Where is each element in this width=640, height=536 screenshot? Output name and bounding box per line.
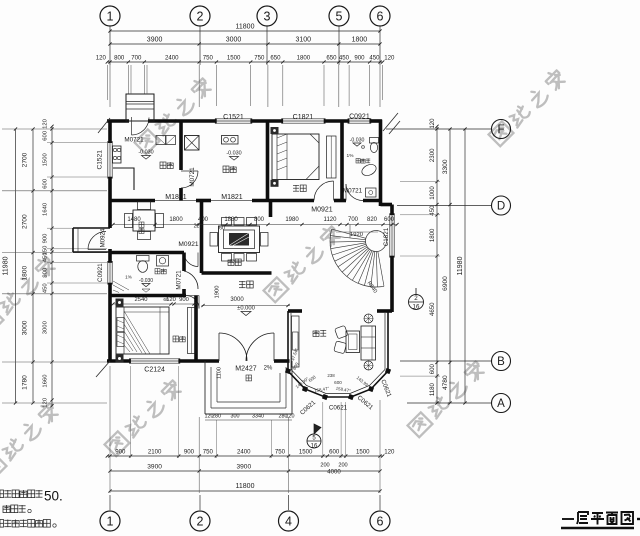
side porch (73, 227, 110, 229)
interior wall dining south (202, 271, 272, 275)
svg-text:F: F (497, 124, 504, 136)
dim row top small (107, 61, 382, 63)
svg-text:-0.030: -0.030 (139, 278, 153, 284)
kitchen1 stove (113, 146, 122, 163)
svg-text:C1521: C1521 (223, 114, 244, 121)
svg-text:C1521: C1521 (97, 150, 104, 170)
svg-text:M2427: M2427 (235, 366, 257, 373)
corner diagonal top-left (98, 118, 110, 133)
svg-text:M0721: M0721 (343, 188, 363, 195)
svg-text:6: 6 (377, 9, 384, 23)
svg-text:1100: 1100 (217, 367, 223, 379)
svg-text:650: 650 (326, 55, 337, 62)
section marker 5/16 (307, 434, 321, 448)
svg-text:1500: 1500 (356, 449, 370, 456)
svg-text:750: 750 (203, 55, 214, 62)
text 下 (246, 375, 252, 381)
interior wall bath2 east (182, 253, 186, 272)
svg-text:M0721: M0721 (124, 137, 144, 144)
svg-text:A: A (497, 398, 505, 410)
svg-text:800: 800 (114, 55, 125, 62)
svg-text:2400: 2400 (237, 449, 251, 456)
window C2124 bottom (131, 358, 179, 360)
interior wall bath2 north (110, 251, 184, 255)
axis bubbles right F D B A (386, 128, 491, 130)
back door M0721 (131, 117, 133, 135)
title underline (561, 527, 634, 529)
grid bubbles top (100, 6, 120, 26)
svg-text:120: 120 (384, 55, 395, 62)
svg-text:C1821: C1821 (293, 114, 314, 121)
svg-text:120: 120 (286, 414, 295, 420)
grid bubbles bottom (109, 495, 111, 510)
svg-text:M1821: M1821 (165, 194, 187, 201)
svg-text:220: 220 (194, 224, 203, 230)
svg-text:2: 2 (197, 514, 204, 528)
svg-text:1660: 1660 (43, 374, 49, 388)
svg-text:4780: 4780 (442, 375, 449, 390)
note line 2 (3, 505, 10, 513)
svg-text:M0921: M0921 (311, 207, 333, 214)
svg-text:400: 400 (198, 217, 209, 223)
svg-text:C0621: C0621 (329, 405, 348, 412)
svg-text:3000: 3000 (230, 297, 244, 303)
bay posts (285, 368, 291, 374)
window C1821 top (283, 118, 324, 120)
entry porch steps (204, 361, 206, 414)
svg-text:900: 900 (354, 55, 365, 62)
kitchen2 stove (222, 136, 239, 145)
svg-text:11980: 11980 (3, 256, 10, 275)
svg-text:900: 900 (43, 233, 49, 244)
outer wall bottom (107, 359, 131, 363)
svg-text:1780: 1780 (22, 375, 29, 390)
living top wall stub (288, 309, 302, 313)
svg-text:600: 600 (43, 130, 49, 141)
svg-text:M1821: M1821 (221, 194, 243, 201)
bedroom wardrobe (327, 136, 337, 178)
svg-text:600: 600 (334, 380, 342, 385)
svg-text:1800: 1800 (429, 228, 436, 242)
svg-text:1800: 1800 (352, 37, 368, 44)
section marker 2/16 (409, 295, 424, 310)
svg-text:3000: 3000 (43, 320, 49, 334)
door M0921 small (184, 253, 198, 267)
bath2 shower (113, 281, 129, 293)
watermark 图纸之家 (0, 401, 60, 480)
svg-text:2%: 2% (264, 366, 273, 372)
text 客厅 (313, 330, 319, 337)
kitchen1 cabinets (156, 136, 166, 145)
svg-text:3100: 3100 (296, 37, 312, 44)
corner diagonal top-right (383, 113, 398, 131)
svg-text:820: 820 (367, 217, 378, 223)
svg-text:3900: 3900 (236, 464, 251, 471)
svg-text:650: 650 (270, 55, 281, 62)
svg-text:2700: 2700 (22, 214, 29, 229)
interior wall hall west (200, 201, 204, 274)
watermark 图纸之家 (134, 76, 213, 155)
outer wall right (379, 120, 383, 206)
svg-text:2540: 2540 (135, 297, 148, 303)
svg-text:700: 700 (131, 55, 142, 62)
svg-text:2: 2 (197, 9, 204, 23)
kitchen1 counter (113, 168, 134, 190)
svg-text:3000: 3000 (22, 320, 29, 335)
master wardrobe (188, 308, 197, 354)
text 卧室 (293, 185, 299, 192)
svg-text:750: 750 (275, 449, 286, 456)
window C0921 left (107, 263, 109, 284)
svg-text:1500: 1500 (227, 55, 241, 62)
window C1521 top (216, 118, 250, 120)
watermark 图纸之家 (104, 378, 183, 457)
svg-text:3900: 3900 (147, 464, 162, 471)
svg-text:120: 120 (96, 55, 107, 62)
svg-text:1920: 1920 (350, 232, 363, 238)
svg-text:1%: 1% (125, 275, 132, 280)
text 厨房 (223, 166, 229, 173)
interior wall kitchen1|kitchen2 (179, 123, 183, 171)
svg-text:1980: 1980 (285, 217, 299, 223)
interior wall kitchen2|bedroom (266, 123, 270, 201)
svg-text:3: 3 (264, 9, 271, 23)
title 一层平面图 (562, 512, 633, 525)
svg-text:16: 16 (413, 304, 420, 311)
master bedroom dim (113, 303, 196, 305)
svg-text:11980: 11980 (457, 256, 464, 275)
stair bay wall (381, 203, 393, 207)
svg-text:450: 450 (369, 55, 380, 62)
svg-text:4650: 4650 (429, 302, 436, 316)
svg-text:C0921: C0921 (349, 114, 370, 121)
svg-text:M0721: M0721 (189, 167, 196, 187)
svg-text:-0.030: -0.030 (226, 151, 241, 157)
svg-text:2100: 2100 (148, 449, 162, 456)
svg-text:3340: 3340 (252, 414, 264, 420)
outer wall top (107, 119, 129, 123)
svg-text:2: 2 (414, 295, 418, 302)
hall dim 3000 (202, 305, 291, 307)
svg-text:900: 900 (179, 297, 189, 303)
svg-text:600: 600 (43, 178, 49, 189)
door M0721 bath2 (184, 271, 198, 289)
svg-text:600: 600 (429, 364, 436, 375)
canopy above back door (126, 94, 154, 121)
window C1521 left (107, 143, 109, 177)
svg-text:M0721: M0721 (176, 270, 183, 290)
svg-text:600: 600 (329, 449, 340, 456)
spiral stair (332, 229, 366, 238)
svg-text:300: 300 (231, 414, 240, 420)
svg-text:1000: 1000 (429, 186, 436, 200)
svg-text:900: 900 (115, 449, 126, 456)
door M0924 (88, 249, 106, 251)
svg-text:450: 450 (43, 283, 49, 294)
living sofa (361, 326, 376, 360)
svg-text:M0921: M0921 (178, 241, 198, 248)
svg-text:120: 120 (43, 118, 49, 129)
svg-text:11800: 11800 (236, 24, 255, 31)
corner diagonal bottom-left (96, 361, 110, 377)
svg-text:1800: 1800 (22, 266, 29, 281)
svg-text:238: 238 (327, 373, 335, 378)
svg-text:±0.000: ±0.000 (237, 306, 255, 312)
text 卫生间 (356, 159, 360, 164)
bedroom bed (272, 134, 319, 180)
svg-text:60: 60 (163, 297, 169, 303)
svg-text:2300: 2300 (429, 148, 436, 162)
svg-text:-0.030: -0.030 (350, 138, 365, 144)
text 餐厅 (228, 259, 234, 266)
text 主卫 (155, 269, 160, 274)
watermark 图纸之家 (263, 224, 342, 303)
flue shaft (185, 136, 200, 151)
plants (364, 314, 373, 323)
svg-text:D: D (497, 201, 505, 213)
window C1821 right bay (389, 215, 391, 256)
svg-text:120: 120 (43, 397, 49, 408)
svg-text:1120: 1120 (324, 217, 338, 223)
svg-text:4000: 4000 (327, 469, 341, 476)
interior wall bedroom|bath (340, 123, 344, 201)
svg-text:900: 900 (43, 267, 49, 278)
door M0721 bath (346, 184, 363, 201)
dim 11800 top (110, 30, 380, 32)
svg-text:16: 16 (311, 444, 318, 450)
window C0921 top (349, 118, 370, 120)
svg-text:C0921: C0921 (97, 263, 104, 282)
text 主卧 (173, 336, 179, 342)
interior wall master north (110, 294, 186, 298)
interior wall master east (194, 296, 198, 362)
svg-text:450: 450 (429, 205, 436, 216)
svg-text:1180: 1180 (429, 382, 436, 396)
svg-text:1%: 1% (347, 153, 355, 159)
interior wall below dining (269, 201, 273, 218)
master bed (116, 307, 169, 354)
porch dims (205, 419, 292, 421)
svg-text:3900: 3900 (147, 37, 163, 44)
watermark 图纸之家 (407, 359, 486, 438)
right dim chains (436, 126, 438, 403)
svg-text:6900: 6900 (442, 276, 449, 291)
svg-text:4: 4 (285, 514, 292, 528)
svg-text:1800: 1800 (169, 217, 183, 223)
svg-text:1900: 1900 (215, 286, 221, 299)
svg-text:-0.030: -0.030 (138, 150, 153, 156)
svg-text:120: 120 (384, 449, 395, 456)
watermark 图纸之家 (0, 255, 57, 334)
svg-text:5: 5 (336, 9, 343, 23)
large dining table (219, 226, 260, 253)
living room bay outer (288, 311, 388, 397)
bath fixtures (360, 162, 378, 177)
interior dim string (113, 224, 397, 226)
living TV cabinet (292, 316, 300, 367)
text 餐厅 small (139, 222, 144, 227)
svg-text:280: 280 (212, 414, 221, 420)
svg-text:6: 6 (377, 514, 384, 528)
door M0721 arc (181, 171, 198, 188)
svg-text:M0924: M0924 (100, 228, 107, 247)
bath2 toilet (137, 256, 150, 262)
svg-text:1: 1 (107, 514, 114, 528)
door M0921 bedroom (314, 181, 334, 201)
svg-text:C2124: C2124 (144, 367, 165, 374)
svg-text:2400: 2400 (165, 55, 179, 62)
svg-text:1: 1 (107, 9, 114, 23)
interior wall kitchens south (110, 199, 155, 203)
entry door M2427 (218, 333, 220, 361)
note line 3 (0, 520, 4, 528)
svg-text:750: 750 (254, 55, 265, 62)
svg-text:11800: 11800 (236, 483, 255, 490)
svg-text:3000: 3000 (226, 37, 242, 44)
left dim chains (15, 129, 17, 403)
svg-text:120: 120 (429, 118, 436, 129)
coffee table (346, 331, 360, 353)
dim row 3900 3000 3100 1800 (110, 43, 380, 45)
bottom dim rows (107, 455, 382, 457)
svg-text:900: 900 (184, 449, 195, 456)
svg-text:1800: 1800 (297, 55, 311, 62)
text 厨房 (160, 162, 166, 169)
svg-text:B: B (497, 356, 505, 368)
svg-text:600: 600 (384, 217, 395, 223)
svg-text:1500: 1500 (299, 449, 313, 456)
small dining table (133, 210, 155, 231)
watermark 图纸之家 (488, 68, 567, 147)
outer wall left (108, 120, 112, 143)
note line 1 (0, 490, 4, 498)
armchairs (335, 325, 348, 338)
svg-text:1500: 1500 (43, 153, 49, 167)
svg-text:1640: 1640 (43, 202, 49, 216)
svg-text:750: 750 (203, 449, 214, 456)
svg-text:450: 450 (43, 252, 49, 263)
svg-text:3300: 3300 (442, 159, 449, 174)
bath2 basin (157, 256, 169, 267)
door master (186, 296, 199, 309)
svg-text:800: 800 (254, 217, 265, 223)
svg-text:450: 450 (339, 55, 350, 62)
svg-text:2700: 2700 (22, 152, 29, 167)
svg-text:50.: 50. (44, 489, 63, 504)
text 玄关 (239, 281, 246, 288)
svg-text:700: 700 (348, 217, 359, 223)
